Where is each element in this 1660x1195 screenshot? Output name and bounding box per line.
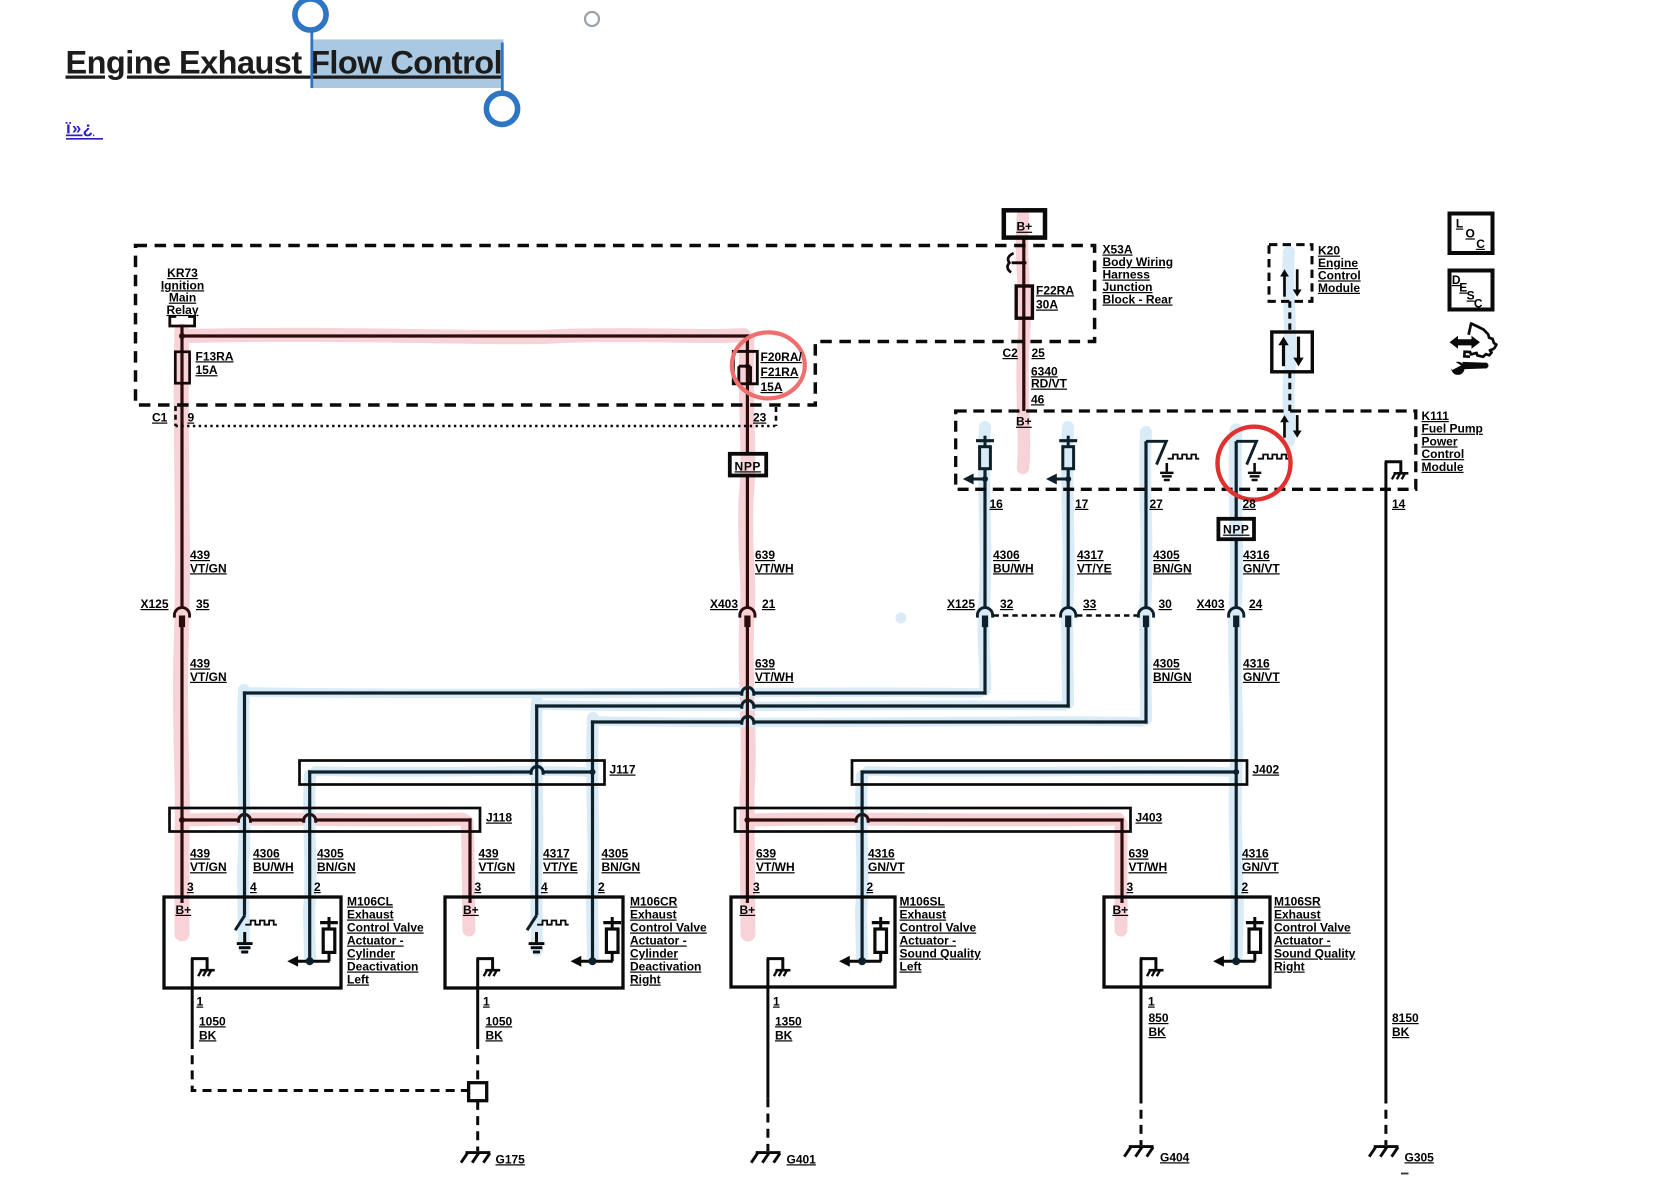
svg-text:BN/GN: BN/GN (317, 860, 356, 874)
svg-text:Cylinder: Cylinder (347, 947, 395, 961)
svg-text:RD/VT: RD/VT (1031, 377, 1068, 391)
svg-text:Module: Module (1318, 281, 1360, 295)
svg-text:J402: J402 (1253, 763, 1280, 777)
svg-text:639: 639 (1129, 847, 1149, 861)
wire J402 splice 4316 GN/VT branch to M106SL pin 2 (861, 770, 1238, 773)
svg-text:Control Valve: Control Valve (347, 921, 424, 935)
svg-text:21: 21 (762, 597, 776, 611)
svg-text:J117: J117 (610, 763, 636, 777)
svg-text:439: 439 (479, 847, 499, 861)
svg-text:Control Valve: Control Valve (900, 921, 977, 935)
annotation circle around K111 pin 28 driver (1218, 427, 1291, 500)
svg-text:L: L (1456, 217, 1463, 231)
ground G404 (1129, 1145, 1154, 1148)
svg-text:Relay: Relay (166, 303, 198, 317)
svg-text:B+: B+ (1016, 220, 1032, 234)
svg-text:M106SL: M106SL (900, 895, 945, 909)
wire J403 splice 639 VT/WH to M106SR pin 3 (747, 818, 856, 821)
svg-text:BN/GN: BN/GN (602, 860, 641, 874)
M106CR chassis ground pin 1 (477, 957, 495, 960)
connector X125 pin 32 (977, 608, 992, 618)
svg-text:BU/WH: BU/WH (253, 860, 294, 874)
wire 639 VT/WH from F20RA/F21RA through NPP, X403 pin 21, to J403 and M106SL pin 3 (746, 334, 749, 453)
svg-text:14: 14 (1392, 497, 1406, 511)
K111 fuel pump power control module dashed box (956, 411, 1416, 489)
svg-text:4316: 4316 (868, 847, 895, 861)
svg-text:Exhaust: Exhaust (347, 908, 394, 922)
svg-text:GN/VT: GN/VT (1243, 561, 1280, 575)
svg-text:X125: X125 (141, 597, 169, 611)
svg-text:2: 2 (314, 880, 321, 894)
svg-text:VT/WH: VT/WH (756, 860, 795, 874)
svg-text:O: O (1466, 226, 1475, 240)
svg-text:8150: 8150 (1392, 1011, 1419, 1025)
svg-text:1: 1 (1148, 995, 1155, 1009)
svg-text:Block - Rear: Block - Rear (1103, 293, 1173, 307)
svg-text:X125: X125 (947, 597, 975, 611)
wire KR73 relay output to fuses F13RA / F20RA (182, 334, 749, 337)
junction node J117 splice (590, 769, 596, 775)
svg-text:4: 4 (250, 880, 257, 894)
K20 engine control module dashed box (1269, 245, 1312, 302)
svg-text:4: 4 (541, 880, 548, 894)
svg-text:Cylinder: Cylinder (630, 947, 678, 961)
svg-text:30: 30 (1159, 597, 1173, 611)
NPP box on 4316 GN/VT (1218, 519, 1254, 539)
ground G401 (756, 1151, 781, 1154)
svg-text:Actuator -: Actuator - (630, 934, 687, 948)
wire 1350 BK M106SL pin 1 to G401 (766, 959, 769, 1099)
junction node KR73 output (179, 333, 185, 339)
navigation icon arrows and wrench (1450, 336, 1481, 349)
svg-text:4316: 4316 (1243, 657, 1270, 671)
svg-text:Left: Left (347, 973, 369, 987)
connector C1 dotted line (174, 406, 177, 426)
splice box J118 (170, 808, 481, 832)
connector X125 pin 35 (174, 608, 189, 618)
svg-text:GN/VT: GN/VT (1242, 860, 1279, 874)
svg-text:3: 3 (187, 880, 194, 894)
arrows serial data gateway (1282, 344, 1285, 366)
svg-text:BU/WH: BU/WH (993, 561, 1034, 575)
junction node J118 splice (179, 817, 185, 823)
svg-text:35: 35 (196, 597, 210, 611)
svg-text:Control Valve: Control Valve (1274, 921, 1351, 935)
svg-text:GN/VT: GN/VT (1243, 670, 1280, 684)
wire 4317 VT/YE from K111 pin 17 through X125 pin 33 and J117 to M106CR pin 4 (1067, 469, 1070, 608)
svg-text:BK: BK (775, 1028, 793, 1042)
svg-text:439: 439 (190, 847, 210, 861)
M106CL pin 4 switch with PWM and ground (235, 915, 245, 930)
svg-text:Left: Left (900, 960, 922, 974)
wire 850 BK M106SR pin 1 to G404 (1140, 959, 1143, 1095)
connector X125 pin 30 (1138, 608, 1153, 618)
svg-text:Control Valve: Control Valve (630, 921, 707, 935)
svg-text:Exhaust: Exhaust (630, 908, 677, 922)
svg-text:4306: 4306 (993, 548, 1020, 562)
svg-text:G404: G404 (1160, 1150, 1190, 1164)
svg-text:Sound Quality: Sound Quality (1274, 947, 1356, 961)
DESC legend box (1450, 271, 1493, 310)
svg-text:BK: BK (1149, 1025, 1167, 1039)
svg-text:ï»¿: ï»¿ (65, 119, 94, 138)
M106SR chassis ground pin 1 (1140, 957, 1158, 960)
svg-text:1: 1 (773, 995, 780, 1009)
svg-text:VT/GN: VT/GN (190, 670, 227, 684)
svg-text:33: 33 (1083, 597, 1097, 611)
module box M106SL (731, 897, 895, 987)
svg-text:F20RA/: F20RA/ (761, 350, 803, 364)
ground G175 (466, 1151, 491, 1154)
svg-text:C: C (1474, 297, 1483, 311)
svg-text:3: 3 (753, 880, 760, 894)
connector X125 pin 33 (1061, 608, 1076, 618)
svg-text:Deactivation: Deactivation (630, 960, 701, 974)
selection caret right (501, 43, 504, 92)
K111 pin 14 chassis ground (1385, 460, 1403, 463)
svg-text:G401: G401 (787, 1152, 817, 1166)
svg-text:B+: B+ (176, 903, 192, 917)
svg-text:3: 3 (475, 880, 482, 894)
KR73 / X53A junction block dashed outline (136, 246, 1095, 406)
splice square S175 (469, 1083, 487, 1101)
svg-text:4316: 4316 (1243, 548, 1270, 562)
svg-text:B+: B+ (1113, 903, 1129, 917)
selection caret left (310, 31, 313, 89)
svg-text:1: 1 (483, 995, 490, 1009)
title selection highlight (312, 39, 504, 88)
fuse F20RA/F21RA 15A (733, 351, 757, 383)
svg-text:4306: 4306 (253, 847, 280, 861)
svg-text:F13RA: F13RA (196, 349, 234, 363)
svg-text:G305: G305 (1405, 1150, 1435, 1164)
svg-text:NPP: NPP (1223, 523, 1249, 537)
svg-text:4305: 4305 (1153, 657, 1180, 671)
connector X125 dashed link line (994, 614, 1060, 616)
svg-text:Actuator -: Actuator - (900, 934, 957, 948)
wire 1050 BK M106CR pin 1 to splice and G175 (476, 959, 479, 1040)
svg-text:X403: X403 (1197, 597, 1225, 611)
svg-text:Deactivation: Deactivation (347, 960, 418, 974)
M106SR load resistor and pin 2 arrow (1253, 917, 1256, 923)
splice box J403 (735, 808, 1131, 832)
svg-text:VT/WH: VT/WH (755, 670, 794, 684)
B+ power terminal box (1004, 210, 1045, 237)
junction node J402 splice (1233, 769, 1239, 775)
svg-text:4305: 4305 (1153, 548, 1180, 562)
svg-text:17: 17 (1075, 497, 1089, 511)
svg-text:1050: 1050 (199, 1014, 226, 1028)
svg-text:BK: BK (1392, 1025, 1410, 1039)
svg-text:4316: 4316 (1242, 847, 1269, 861)
svg-text:VT/GN: VT/GN (190, 860, 227, 874)
wire 1050 BK M106CL pin 1 to splice (191, 959, 194, 1040)
M106CL load resistor and pin 2 arrow (328, 917, 331, 923)
svg-text:25: 25 (1032, 346, 1046, 360)
svg-text:M106CL: M106CL (347, 895, 393, 909)
svg-text:2: 2 (867, 880, 874, 894)
svg-text:24: 24 (1249, 597, 1263, 611)
svg-text:Right: Right (630, 973, 661, 987)
wire 4316 GN/VT from K111 pin 28 through NPP, X403 pin 24, J402 to M106SR pin 2 (1235, 441, 1238, 519)
svg-text:VT/GN: VT/GN (190, 561, 227, 575)
wire serial data K20 to K111 (dashed) (1288, 301, 1291, 332)
splice box J117 (300, 761, 605, 785)
small circle marker (585, 12, 599, 26)
svg-text:32: 32 (1000, 597, 1014, 611)
svg-text:1350: 1350 (775, 1014, 802, 1028)
svg-text:M106CR: M106CR (630, 895, 678, 909)
svg-text:4305: 4305 (602, 847, 629, 861)
M106SL chassis ground pin 1 (767, 957, 785, 960)
M106SL load resistor and pin 2 arrow (879, 917, 882, 923)
connector X403 pin 24 (1229, 608, 1244, 618)
K111 pin 17 driver output (1067, 436, 1070, 447)
svg-text:F21RA: F21RA (761, 365, 799, 379)
connector X403 pin 21 (740, 608, 755, 618)
wire 8150 BK K111 pin 14 to G305 (1384, 462, 1387, 1095)
ground G305 (1374, 1145, 1399, 1148)
serial data gateway box (1272, 332, 1313, 372)
svg-text:639: 639 (755, 657, 775, 671)
module box M106SR (1104, 897, 1270, 987)
wire J118 splice 439 VT/GN to M106CR pin 3 (182, 818, 238, 821)
svg-text:M106SR: M106SR (1274, 895, 1321, 909)
K111 pin 16 driver output (984, 436, 987, 447)
svg-text:BK: BK (199, 1028, 217, 1042)
svg-text:VT/GN: VT/GN (479, 860, 516, 874)
svg-text:B+: B+ (463, 903, 479, 917)
svg-text:BN/GN: BN/GN (1153, 561, 1192, 575)
svg-text:30A: 30A (1036, 298, 1058, 312)
wire 6340 RD/VT from B+ through F22RA, C2 pin 25, to K111 pin 46 B+ (1022, 238, 1025, 411)
svg-text:Actuator -: Actuator - (347, 934, 404, 948)
K111 pin 28 low-side switch with PWM (1236, 441, 1256, 464)
svg-text:VT/WH: VT/WH (755, 561, 794, 575)
breaker hook inside X53A (1007, 253, 1013, 272)
M106CR load resistor and pin 2 arrow (611, 917, 614, 923)
svg-text:439: 439 (190, 548, 210, 562)
svg-text:Right: Right (1274, 960, 1305, 974)
svg-text:639: 639 (756, 847, 776, 861)
svg-text:BN/GN: BN/GN (1153, 670, 1192, 684)
NPP box on 639 VT/WH (730, 454, 766, 476)
svg-text:GN/VT: GN/VT (868, 860, 905, 874)
wire J117 splice 4305 BN/GN branch to M106CL pin 2 (543, 770, 592, 773)
LOC legend box (1450, 214, 1493, 254)
svg-text:23: 23 (753, 411, 767, 425)
svg-text:2: 2 (598, 880, 605, 894)
svg-text:15A: 15A (761, 380, 783, 394)
fuse F22RA 30A (1016, 286, 1032, 318)
svg-text:4317: 4317 (543, 847, 570, 861)
svg-text:16: 16 (990, 497, 1004, 511)
svg-text:639: 639 (755, 548, 775, 562)
svg-text:VT/WH: VT/WH (1129, 860, 1168, 874)
svg-text:Actuator -: Actuator - (1274, 934, 1331, 948)
K111 pin 27 low-side switch with PWM (1146, 441, 1166, 464)
svg-text:2: 2 (1242, 880, 1249, 894)
relay contact KR73 (170, 317, 195, 327)
svg-text:C1: C1 (152, 411, 168, 425)
svg-text:3: 3 (1127, 880, 1134, 894)
svg-text:27: 27 (1150, 497, 1164, 511)
annotation circle around F20RA/F21RA (732, 332, 805, 398)
svg-text:F22RA: F22RA (1036, 283, 1074, 297)
svg-text:VT/YE: VT/YE (1077, 561, 1112, 575)
svg-text:J403: J403 (1136, 811, 1163, 825)
arrows serial data inside K111 (1283, 421, 1286, 437)
svg-text:X403: X403 (710, 597, 738, 611)
wire 4306 BU/WH from K111 pin 16 through X125 pin 32 and J118 to M106CL pin 4 (983, 469, 986, 608)
svg-text:Exhaust: Exhaust (900, 908, 947, 922)
svg-text:VT/YE: VT/YE (543, 860, 578, 874)
svg-text:B+: B+ (1016, 415, 1032, 429)
wire 439 VT/GN vertical from KR73 relay through F13RA, C1 pin 9, X125 pin 35, J118 to M106CL pin 3 (180, 326, 183, 607)
fuse F13RA 15A (175, 352, 189, 383)
svg-text:850: 850 (1149, 1011, 1169, 1025)
M106CL chassis ground pin 1 (191, 957, 209, 960)
svg-text:46: 46 (1031, 392, 1045, 406)
svg-text:Module: Module (1422, 460, 1464, 474)
module box M106CR (445, 897, 623, 988)
svg-text:9: 9 (188, 411, 195, 425)
svg-text:Engine Exhaust Flow Control: Engine Exhaust Flow Control (66, 45, 503, 81)
svg-text:NPP: NPP (735, 459, 761, 473)
M106CR pin 4 switch with PWM and ground (527, 915, 537, 930)
svg-text:Exhaust: Exhaust (1274, 908, 1321, 922)
splice box J402 (852, 761, 1247, 785)
module box M106CL (164, 897, 341, 988)
arrows serial data inside K20 (1283, 276, 1286, 297)
svg-text:Sound Quality: Sound Quality (900, 947, 982, 961)
junction node F21RA tap (745, 364, 750, 369)
junction node J403 splice (744, 817, 750, 823)
svg-text:4317: 4317 (1077, 548, 1104, 562)
svg-text:4305: 4305 (317, 847, 344, 861)
svg-text:B+: B+ (740, 903, 756, 917)
svg-text:C2: C2 (1003, 346, 1019, 360)
svg-text:BK: BK (486, 1028, 504, 1042)
svg-text:J118: J118 (486, 811, 512, 825)
svg-text:28: 28 (1243, 497, 1257, 511)
svg-text:G175: G175 (496, 1152, 526, 1166)
svg-text:439: 439 (190, 657, 210, 671)
svg-text:1050: 1050 (486, 1014, 513, 1028)
svg-text:15A: 15A (196, 363, 218, 377)
svg-text:1: 1 (197, 995, 204, 1009)
wire 4305 BN/GN from K111 pin 27 through X125 pin 30, J117 to M106CL pin 2 and M106CR pin 2 (1144, 441, 1147, 607)
svg-text:C: C (1476, 237, 1485, 251)
